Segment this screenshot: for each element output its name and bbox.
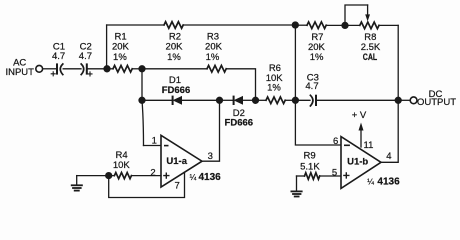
node T xyxy=(292,22,298,28)
wire pin6 of U1-b xyxy=(295,100,341,145)
resistor R7 xyxy=(307,22,326,29)
wire node C to D2 xyxy=(220,99,234,101)
diode D2 xyxy=(234,97,243,104)
capacitor C3 xyxy=(310,95,316,106)
wire node B down xyxy=(142,69,144,146)
node C xyxy=(217,97,223,103)
potentiometer R8 xyxy=(360,5,379,29)
svg-text:U1-a: U1-a xyxy=(166,156,187,167)
wire R3 right then down to D branch xyxy=(226,69,255,101)
svg-text:4.7: 4.7 xyxy=(52,51,65,62)
svg-text:1%: 1% xyxy=(206,52,220,63)
node D xyxy=(253,97,259,103)
svg-text:R3: R3 xyxy=(207,31,219,42)
svg-text:5: 5 xyxy=(332,167,337,178)
resistor R2 xyxy=(164,22,183,29)
svg-text:+ V: + V xyxy=(352,110,367,121)
resistor R3 xyxy=(207,66,226,73)
wire pin1 of U1-a xyxy=(144,145,162,147)
svg-text:U1-b: U1-b xyxy=(347,156,368,167)
node B2 junction xyxy=(139,97,145,103)
wire D2 to node D xyxy=(243,99,256,101)
+V supply arrow xyxy=(359,123,364,148)
svg-text:2: 2 xyxy=(150,167,155,178)
wire U1-b output pin4 up xyxy=(381,100,398,162)
svg-text:4.7: 4.7 xyxy=(305,81,318,92)
svg-text:1%: 1% xyxy=(267,82,281,93)
svg-text:4: 4 xyxy=(386,151,391,162)
op-amp U1-a xyxy=(161,135,202,187)
U1-b minus sign xyxy=(344,144,350,146)
wire U1-a output up to node C xyxy=(202,100,220,161)
node G xyxy=(106,173,112,179)
resistor R9 xyxy=(305,173,320,180)
svg-text:¼ 4136: ¼ 4136 xyxy=(190,172,222,183)
svg-text:FD666: FD666 xyxy=(225,117,254,128)
node A xyxy=(104,66,110,72)
svg-text:INPUT: INPUT xyxy=(5,67,34,78)
ground for R4 xyxy=(72,176,82,191)
wire input to C1 xyxy=(43,68,56,70)
AC input terminal xyxy=(36,65,43,72)
capacitor C2 xyxy=(81,64,92,76)
wire node E to C3 xyxy=(295,99,310,101)
wiper bracket wire xyxy=(345,5,368,25)
svg-text:OUTPUT: OUTPUT xyxy=(417,97,456,108)
svg-text:7: 7 xyxy=(175,181,180,192)
wire C3 to output node xyxy=(317,99,398,101)
resistor R4 xyxy=(109,173,132,179)
output node F xyxy=(395,97,401,103)
svg-text:1: 1 xyxy=(152,135,157,146)
wire node T to R7 xyxy=(295,24,307,26)
wire ground to node G xyxy=(77,175,109,177)
resistor R6 xyxy=(266,97,285,104)
capacitor C1 xyxy=(51,64,63,76)
diode D1 xyxy=(173,97,182,104)
U1-a minus sign xyxy=(164,145,169,147)
wire node G to pin7 loop xyxy=(109,172,185,197)
svg-text:6: 6 xyxy=(333,136,338,147)
wire R4 to pin2 xyxy=(131,175,161,177)
ground for R9 xyxy=(291,176,301,197)
wire R9 to pin5 xyxy=(320,175,341,177)
wire R1 to node B xyxy=(132,68,142,70)
svg-text:4.7: 4.7 xyxy=(79,51,92,62)
node W xyxy=(342,22,348,28)
wire node D to R6 xyxy=(256,99,267,101)
node E xyxy=(292,97,298,103)
wire R8 to right corner xyxy=(379,24,398,26)
svg-text:10K: 10K xyxy=(113,160,131,171)
svg-text:1%: 1% xyxy=(113,52,127,63)
resistor R1 xyxy=(107,66,132,73)
svg-text:R1: R1 xyxy=(115,31,127,42)
wire C2 to node A xyxy=(88,68,107,70)
svg-text:CAL: CAL xyxy=(363,52,378,63)
DC output terminal xyxy=(410,97,417,104)
svg-text:¼ 4136: ¼ 4136 xyxy=(367,176,400,187)
svg-text:FD666: FD666 xyxy=(162,85,191,96)
wire R6 to node E xyxy=(285,99,295,101)
op-amp U1-b xyxy=(341,137,381,189)
svg-text:3: 3 xyxy=(208,151,213,162)
svg-text:1%: 1% xyxy=(167,52,181,63)
wire to DC output terminal xyxy=(398,99,410,101)
svg-text:11: 11 xyxy=(364,140,374,151)
svg-text:R9: R9 xyxy=(304,150,316,161)
wire D1 to node C xyxy=(182,99,220,101)
wire node B to R3 xyxy=(142,68,207,70)
wire C1 to C2 xyxy=(63,68,81,70)
wire ground to R9 xyxy=(297,175,305,177)
wire node B2 to D1 xyxy=(142,99,172,101)
node B xyxy=(139,66,145,72)
svg-text:R2: R2 xyxy=(169,31,181,42)
wire node E up to node T xyxy=(294,25,296,100)
U1-b plus sign xyxy=(343,172,349,178)
wire node A up xyxy=(106,25,108,69)
svg-text:1%: 1% xyxy=(310,52,324,63)
svg-text:5.1K: 5.1K xyxy=(300,161,320,172)
wire R7 to node W xyxy=(326,24,345,26)
wire R2 to node T xyxy=(183,24,295,26)
wire right vertical to output node xyxy=(397,25,399,100)
wire top left xyxy=(107,24,164,26)
U1-a plus sign xyxy=(163,173,169,179)
wire node W to R8 xyxy=(345,24,360,26)
